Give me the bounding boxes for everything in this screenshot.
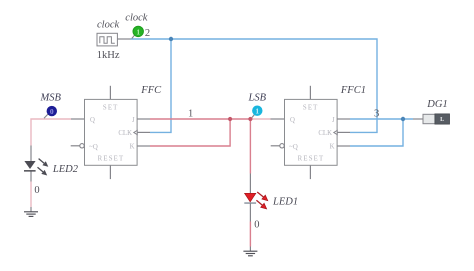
svg-text:DG1: DG1 [426, 99, 447, 110]
svg-text:LED1: LED1 [272, 197, 298, 208]
svg-text:Q: Q [90, 117, 96, 124]
svg-text:0: 0 [254, 220, 259, 231]
svg-text:L: L [440, 116, 444, 123]
svg-text:2: 2 [145, 28, 150, 39]
svg-text:0: 0 [34, 185, 39, 196]
svg-text:1: 1 [188, 109, 193, 120]
svg-text:MSB: MSB [40, 92, 62, 103]
svg-text:FFC1: FFC1 [340, 85, 366, 96]
svg-text:J: J [132, 117, 135, 124]
svg-text:1kHz: 1kHz [97, 50, 120, 61]
svg-text:3: 3 [374, 108, 379, 119]
svg-text:CLK: CLK [118, 130, 132, 137]
svg-text:~Q: ~Q [89, 144, 98, 151]
svg-text:clock: clock [97, 20, 119, 31]
svg-text:FFC: FFC [140, 85, 162, 96]
svg-text:SET: SET [303, 105, 319, 112]
svg-text:CLK: CLK [318, 130, 332, 137]
svg-text:0: 0 [50, 107, 54, 116]
svg-text:SET: SET [103, 105, 119, 112]
svg-text:~Q: ~Q [289, 144, 298, 151]
svg-text:1: 1 [255, 107, 259, 116]
svg-text:K: K [130, 144, 135, 151]
svg-text:LSB: LSB [248, 92, 267, 103]
svg-text:LED2: LED2 [52, 164, 79, 175]
svg-text:K: K [330, 144, 335, 151]
svg-text:J: J [332, 117, 335, 124]
svg-text:Q: Q [290, 117, 296, 124]
svg-text:RESET: RESET [298, 156, 325, 163]
svg-text:clock: clock [125, 13, 147, 24]
svg-text:1: 1 [136, 27, 140, 36]
svg-text:RESET: RESET [98, 156, 125, 163]
